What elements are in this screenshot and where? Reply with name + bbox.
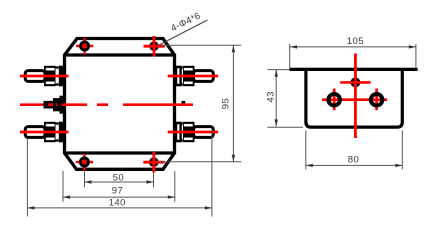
terminal nut top-right bbox=[183, 66, 195, 86]
mounting hole top-left bbox=[76, 38, 93, 55]
dimension 140 text bbox=[109, 198, 126, 209]
svg-text:43: 43 bbox=[266, 91, 277, 102]
dimension 97 extension lines bbox=[63, 171, 175, 202]
side view top terminal dot bbox=[351, 78, 361, 88]
dimension 105 line bbox=[290, 45, 416, 48]
terminal nut bottom-left bbox=[44, 122, 56, 142]
svg-text:105: 105 bbox=[347, 36, 364, 47]
terminal stud top-left bbox=[25, 71, 45, 82]
terminal washer bottom-right bbox=[176, 122, 184, 143]
leader line for hole callout bbox=[159, 20, 208, 45]
terminal stud bottom-right bbox=[194, 127, 214, 138]
terminal nut bottom-right bbox=[183, 122, 195, 142]
dimension 97 text bbox=[112, 186, 123, 197]
side view horizontal centerline through holes (red) bbox=[322, 98, 387, 101]
side view body outline bbox=[306, 71, 402, 127]
middle dashed centerline (red) bbox=[20, 103, 193, 106]
terminal middle-right stub bbox=[182, 101, 186, 105]
svg-text:80: 80 bbox=[348, 154, 359, 165]
mounting hole top-right bbox=[144, 36, 165, 57]
side view left hole vertical centerline (red) bbox=[333, 89, 336, 111]
dimension 43 line bbox=[275, 70, 278, 127]
centerline bottom-right terminal (red) bbox=[168, 131, 219, 134]
dimension 105 extension lines bbox=[290, 44, 416, 67]
dimension 140 line bbox=[27, 206, 212, 209]
centerline bottom-left terminal (red) bbox=[20, 131, 69, 134]
front view bottom flange fold line bbox=[65, 151, 175, 154]
centerline top-left terminal (red) bbox=[20, 75, 69, 78]
dimension 80 text bbox=[348, 154, 359, 165]
centerline top-right terminal (red) bbox=[168, 75, 219, 78]
side view dot horizontal centerline (red) bbox=[340, 81, 370, 84]
svg-text:140: 140 bbox=[109, 198, 126, 209]
terminal nut top-left bbox=[44, 66, 56, 86]
dimension 50 line bbox=[85, 180, 154, 183]
dimension 140 extension lines bbox=[27, 130, 212, 217]
dimension 105 text bbox=[347, 36, 364, 47]
dimension 80 line bbox=[306, 164, 403, 167]
side view vertical centerline (red) bbox=[354, 54, 357, 139]
dimension 95 text bbox=[220, 98, 231, 109]
dimension 50 extension lines bbox=[85, 171, 154, 188]
dimension 95 extension lines bbox=[159, 45, 241, 162]
dimension 50 text bbox=[113, 172, 124, 183]
dimension 95 line bbox=[232, 45, 235, 162]
mounting hole bottom-right bbox=[143, 152, 164, 173]
front view body outline bbox=[65, 39, 175, 170]
svg-text:4-Φ4*6: 4-Φ4*6 bbox=[169, 10, 202, 34]
label 4-phi4*6 bbox=[169, 10, 202, 34]
side view left hole bbox=[328, 94, 340, 106]
side view top flange bbox=[289, 68, 417, 71]
dimension 97 line bbox=[63, 195, 175, 198]
dimension 43 extension lines bbox=[267, 70, 303, 128]
terminal stud top-right bbox=[194, 71, 214, 82]
terminal middle-left small stud bbox=[44, 96, 64, 114]
svg-text:97: 97 bbox=[112, 186, 123, 197]
side view right hole vertical centerline (red) bbox=[375, 89, 378, 111]
svg-text:50: 50 bbox=[113, 172, 124, 183]
mounting hole bottom-left bbox=[76, 154, 93, 171]
terminal washer top-left bbox=[56, 66, 64, 87]
terminal washer bottom-left bbox=[56, 122, 64, 143]
front view top flange fold line bbox=[65, 53, 175, 56]
terminal stud bottom-left bbox=[25, 127, 45, 138]
svg-text:95: 95 bbox=[220, 98, 231, 109]
dimension 80 extension lines bbox=[306, 131, 403, 170]
side view right hole bbox=[371, 94, 383, 106]
dimension 43 text bbox=[266, 91, 277, 102]
terminal washer top-right bbox=[176, 66, 184, 87]
